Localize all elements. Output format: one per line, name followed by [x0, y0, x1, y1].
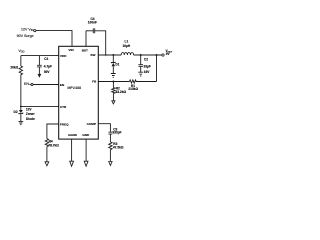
junction diode D1 node	[112, 54, 114, 56]
resistor R4	[45, 139, 48, 147]
svg-text:EN: EN	[60, 83, 65, 87]
wire 20k bottom to CTR node	[20, 75, 22, 107]
svg-text:Diode: Diode	[26, 117, 35, 121]
svg-text:12V: 12V	[26, 108, 33, 112]
wire CTR to CTR pin	[21, 105, 59, 107]
zener diode D2 bar	[19, 113, 23, 115]
diode D1 schottky bar	[111, 62, 115, 64]
resistor R2 bottom lead	[112, 94, 114, 101]
wire EN to EN pin	[33, 84, 59, 86]
svg-text:BST: BST	[82, 48, 88, 52]
resistor R1	[130, 80, 137, 83]
svg-text:210kΩ: 210kΩ	[128, 87, 138, 91]
svg-text:AGND: AGND	[68, 133, 78, 137]
svg-text:EN: EN	[24, 82, 29, 86]
svg-text:100nF: 100nF	[88, 21, 97, 25]
node VOUT terminal	[162, 54, 164, 56]
capacitor C1 bottom lead	[38, 67, 40, 74]
op-amp U1 MP2488 body	[59, 46, 99, 139]
wire FREQ pin to R4	[47, 124, 59, 139]
inductor L1	[121, 53, 133, 55]
svg-text:47.5kΩ: 47.5kΩ	[113, 145, 124, 149]
wire FB rail right segment	[136, 81, 157, 83]
node EN input terminal	[31, 83, 33, 85]
svg-text:GND: GND	[82, 133, 90, 137]
capacitor C2 plates	[138, 65, 143, 67]
capacitor C4 plates	[93, 28, 94, 33]
svg-text:L1: L1	[125, 39, 129, 43]
ground below R3	[109, 162, 112, 166]
svg-text:VIN: VIN	[68, 48, 74, 52]
resistor R3 bottom lead	[109, 150, 111, 162]
svg-text:33µF: 33µF	[144, 65, 151, 69]
svg-text:10µH: 10µH	[122, 44, 130, 48]
ground below C2	[138, 72, 143, 76]
ground below C1	[38, 74, 42, 78]
resistor 20k	[19, 66, 22, 75]
svg-text:50V: 50V	[44, 70, 51, 74]
diode D1 bottom lead	[112, 66, 114, 73]
wire FB rail left segment	[98, 81, 129, 83]
ground below R2	[112, 101, 115, 104]
capacitor C1 top lead	[38, 56, 40, 65]
wire EN label dash	[29, 84, 31, 86]
capacitor C3 bottom lead	[109, 134, 111, 142]
wire output rail	[134, 54, 162, 56]
capacitor C3 plates	[109, 132, 113, 134]
svg-text:78.7kΩ: 78.7kΩ	[48, 143, 59, 147]
wire SW rail	[98, 54, 121, 56]
svg-text:C2: C2	[144, 57, 148, 61]
junction CTR node	[20, 106, 22, 108]
capacitor C2 top lead	[140, 55, 142, 64]
diode D1 top lead	[112, 55, 114, 62]
svg-text:D1: D1	[115, 62, 119, 66]
junction VOUT divider tap	[156, 54, 158, 56]
svg-text:Zener: Zener	[26, 112, 35, 116]
capacitor C2 bottom lead	[140, 67, 142, 72]
zener diode D2 bottom lead	[20, 114, 22, 121]
ground below R4	[45, 162, 49, 166]
ground below GND	[84, 161, 88, 166]
wire C4 right segment down to SW rail	[95, 31, 106, 55]
capacitor C1 plates	[37, 65, 42, 67]
wire AGND pin down	[71, 139, 73, 161]
wire 20k top segment	[20, 56, 22, 66]
svg-text:CTR: CTR	[60, 105, 67, 109]
svg-text:FREQ: FREQ	[60, 123, 69, 127]
wire COMP pin to network	[98, 124, 110, 132]
junction FB node	[112, 81, 114, 83]
svg-text:D2: D2	[14, 110, 18, 114]
svg-text:SW: SW	[90, 53, 95, 57]
wire BST stub up	[85, 31, 87, 47]
junction C2 top	[140, 54, 142, 56]
svg-text:43.2kΩ: 43.2kΩ	[116, 90, 127, 94]
wire R4 to ground	[46, 147, 48, 162]
wire VDD rail	[21, 55, 59, 57]
svg-text:4.7µF: 4.7µF	[44, 65, 52, 69]
svg-text:COMP: COMP	[87, 122, 96, 126]
svg-text:C1: C1	[44, 57, 48, 61]
zener diode D2 top lead	[20, 106, 22, 110]
svg-text:12V VIN: 12V VIN	[21, 28, 34, 33]
node VIN input terminal	[34, 30, 36, 32]
zener diode D2 triangle	[19, 110, 23, 113]
svg-text:330pF: 330pF	[112, 131, 121, 135]
ground below AGND	[70, 161, 74, 166]
wire C4 left segment	[86, 30, 93, 32]
ground below zener D2	[19, 121, 24, 124]
svg-text:90V Surge: 90V Surge	[17, 34, 34, 38]
resistor R2	[112, 88, 115, 94]
svg-text:20kΩ: 20kΩ	[10, 66, 18, 70]
svg-text:MP2488: MP2488	[67, 86, 81, 90]
wire GND pin down	[85, 139, 87, 161]
svg-text:16V: 16V	[144, 70, 151, 74]
junction C4 drop	[105, 54, 107, 56]
wire VIN rail to VIN pin	[36, 31, 72, 47]
resistor R3	[109, 142, 112, 150]
ground below D1	[111, 74, 116, 78]
svg-text:VDD: VDD	[60, 54, 67, 58]
wire divider feed down	[156, 55, 158, 82]
resistor R2 top lead	[112, 82, 114, 88]
diode D1 triangle	[112, 63, 116, 66]
